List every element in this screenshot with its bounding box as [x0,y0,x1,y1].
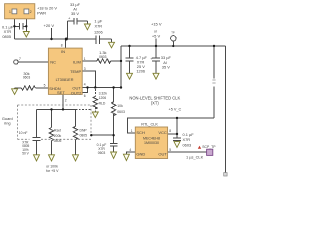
svg-text:+5 V: +5 V [152,33,161,38]
svg-text:1: 1 [84,57,86,61]
svg-text:5: 5 [169,148,171,152]
svg-text:1: 1 [9,10,11,14]
svg-text:NC: NC [50,60,56,65]
svg-text:35 V: 35 V [71,11,79,16]
svg-text:SCP_TP: SCP_TP [202,145,216,149]
svg-text:1206: 1206 [99,96,107,100]
svg-text:10 nF: 10 nF [19,131,28,135]
svg-text:+15 V: +15 V [151,22,162,27]
svg-text:50 V: 50 V [22,151,29,155]
svg-text:10k: 10k [117,104,123,108]
svg-text:PWR: PWR [37,11,46,16]
svg-text:RLD: RLD [99,102,106,106]
svg-text:2: 2 [65,98,67,102]
svg-text:VCC: VCC [158,130,167,135]
svg-text:1M00030: 1M00030 [144,141,159,145]
svg-text:(XT): (XT) [151,101,160,106]
svg-text:TP: TP [171,30,175,34]
svg-text:GND: GND [136,151,145,156]
svg-text:OUT2: OUT2 [71,91,82,96]
svg-text:+5 V_C: +5 V_C [169,107,182,111]
svg-text:35 V: 35 V [162,65,170,70]
svg-text:200k: 200k [54,134,62,138]
svg-text:X7R: X7R [95,23,103,28]
svg-text:1 µs_CLK: 1 µs_CLK [186,155,204,160]
svg-text:3: 3 [84,67,86,71]
svg-text:1206: 1206 [94,29,103,34]
svg-text:1206: 1206 [136,68,145,73]
svg-text:IN: IN [61,49,65,54]
svg-text:4: 4 [129,148,131,152]
svg-text:SCH: SCH [136,130,145,135]
svg-text:0805: 0805 [2,34,11,39]
svg-text:DNP: DNP [80,129,88,133]
svg-text:5: 5 [44,84,46,88]
svg-text:Rset: Rset [54,129,61,133]
svg-text:OUT: OUT [158,151,167,156]
svg-text:2: 2 [30,10,32,14]
svg-text:8: 8 [61,43,63,47]
svg-text:or 100k: or 100k [46,164,58,168]
svg-text:7: 7 [19,57,21,61]
svg-text:0603: 0603 [98,151,106,155]
svg-text:0603: 0603 [183,142,192,147]
svg-text:0805: 0805 [54,139,62,143]
svg-text:6: 6 [84,94,86,98]
svg-text:1: 1 [131,129,133,133]
svg-text:SET: SET [57,90,65,95]
svg-text:+20 V: +20 V [44,23,55,28]
svg-text:0603: 0603 [99,55,107,59]
svg-text:ring: ring [4,120,11,125]
svg-text:ILIM: ILIM [73,60,81,65]
svg-text:LT3081ER: LT3081ER [56,78,74,82]
svg-text:0603: 0603 [117,110,125,114]
svg-text:0805: 0805 [80,134,88,138]
svg-text:X7R: X7R [183,137,191,142]
svg-text:4: 4 [84,82,86,86]
svg-text:0603: 0603 [23,75,31,79]
svg-text:3.32k: 3.32k [99,92,108,96]
svg-text:8: 8 [169,129,171,133]
svg-text:for +5 V: for +5 V [46,169,59,173]
svg-text:TEMP: TEMP [70,69,81,74]
svg-text:MEC4EH8: MEC4EH8 [143,137,160,141]
svg-text:RTL_CLK: RTL_CLK [141,122,158,126]
